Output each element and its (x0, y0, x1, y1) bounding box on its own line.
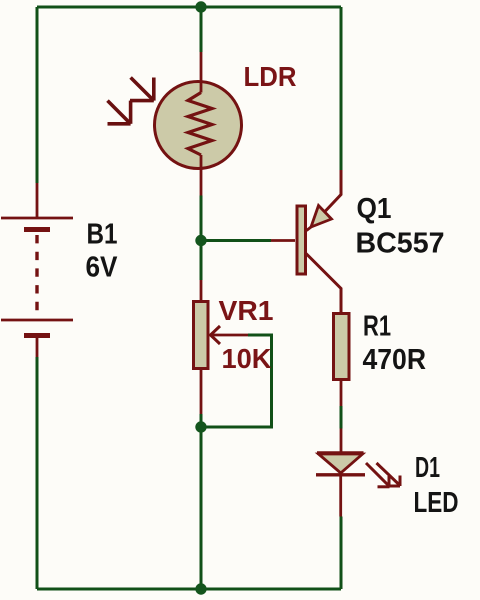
battery B1 (1, 183, 73, 357)
LED light arrow left (366, 463, 390, 487)
LDR LDR1 (155, 52, 242, 196)
transistor Q1 (271, 170, 341, 312)
svg-text:LED: LED (414, 487, 459, 519)
wire VR1 wiper loop (201, 335, 272, 427)
wire top-left horizontal (37, 6, 201, 9)
wire top-right horizontal (201, 6, 341, 9)
wire base node to transistor (201, 239, 271, 242)
node base junction (195, 235, 206, 246)
LDR light arrow lower (108, 101, 131, 124)
resistor R1 (334, 314, 350, 407)
potentiometer VR1 (194, 280, 249, 414)
node wiper junction (195, 421, 206, 432)
node bottom junction (195, 583, 206, 594)
wire bottom horizontal (37, 588, 341, 591)
wire node to VR1 top (200, 241, 203, 281)
wire R1 to LED (340, 406, 343, 429)
svg-text:6V: 6V (86, 252, 119, 284)
wire VR1 bottom to node (200, 414, 203, 427)
svg-text:R1: R1 (363, 311, 391, 343)
svg-text:BC557: BC557 (356, 228, 445, 260)
wire right vertical lower (340, 517, 343, 590)
wire left vertical upper (36, 7, 39, 183)
wire LDR bottom to node (200, 196, 203, 241)
wire right vertical upper (340, 7, 343, 170)
wire left vertical lower (36, 357, 39, 589)
svg-text:470R: 470R (363, 344, 427, 376)
node top junction (195, 1, 206, 12)
svg-text:D1: D1 (415, 452, 440, 484)
LED D1 (316, 429, 365, 517)
LED light arrow right (377, 463, 401, 486)
wire node to bottom (200, 427, 203, 589)
svg-text:10K: 10K (222, 343, 272, 374)
svg-text:B1: B1 (87, 219, 118, 251)
LDR light arrow upper (130, 78, 154, 101)
svg-text:VR1: VR1 (219, 295, 274, 326)
wire LDR top (200, 7, 203, 52)
svg-text:Q1: Q1 (357, 193, 392, 225)
svg-text:LDR: LDR (244, 61, 297, 92)
